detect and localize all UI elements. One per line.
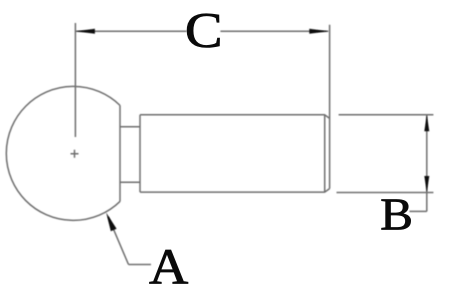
- dim B top extension line: [339, 114, 434, 116]
- label A leader horizontal: [129, 264, 152, 266]
- svg-text:C: C: [185, 2, 223, 58]
- dim B top arrowhead: [424, 115, 429, 131]
- shank left edge: [139, 115, 141, 192]
- dim C left arrowhead: [76, 29, 95, 34]
- neck bottom line: [120, 181, 140, 183]
- shank top line: [140, 114, 325, 116]
- dim C left extension line: [74, 23, 76, 137]
- neck top line: [120, 126, 140, 128]
- ball center cross: [71, 150, 79, 158]
- svg-text:A: A: [149, 239, 188, 295]
- ball flat edge: [119, 105, 121, 201]
- label A leader diagonal: [108, 217, 128, 265]
- dim C line right segment: [220, 30, 328, 32]
- dim B leader to label: [409, 210, 426, 212]
- svg-text:B: B: [380, 190, 413, 240]
- shank bottom line: [140, 191, 325, 193]
- shank chamfer start vertical: [324, 115, 326, 192]
- shank chamfer top diagonal: [325, 115, 330, 119]
- label A leader arrowhead: [106, 213, 116, 232]
- ball spherical end (arc with flat): [6, 86, 120, 220]
- shank chamfer bottom diagonal: [325, 189, 330, 193]
- dim C right arrowhead: [309, 29, 328, 34]
- dim C right extension line merged with shank right edge: [329, 25, 331, 189]
- dim B vertical line: [426, 115, 428, 211]
- dim C line left segment: [76, 30, 187, 32]
- dim B bottom arrowhead: [424, 176, 429, 192]
- dim B bottom extension line: [337, 192, 434, 194]
